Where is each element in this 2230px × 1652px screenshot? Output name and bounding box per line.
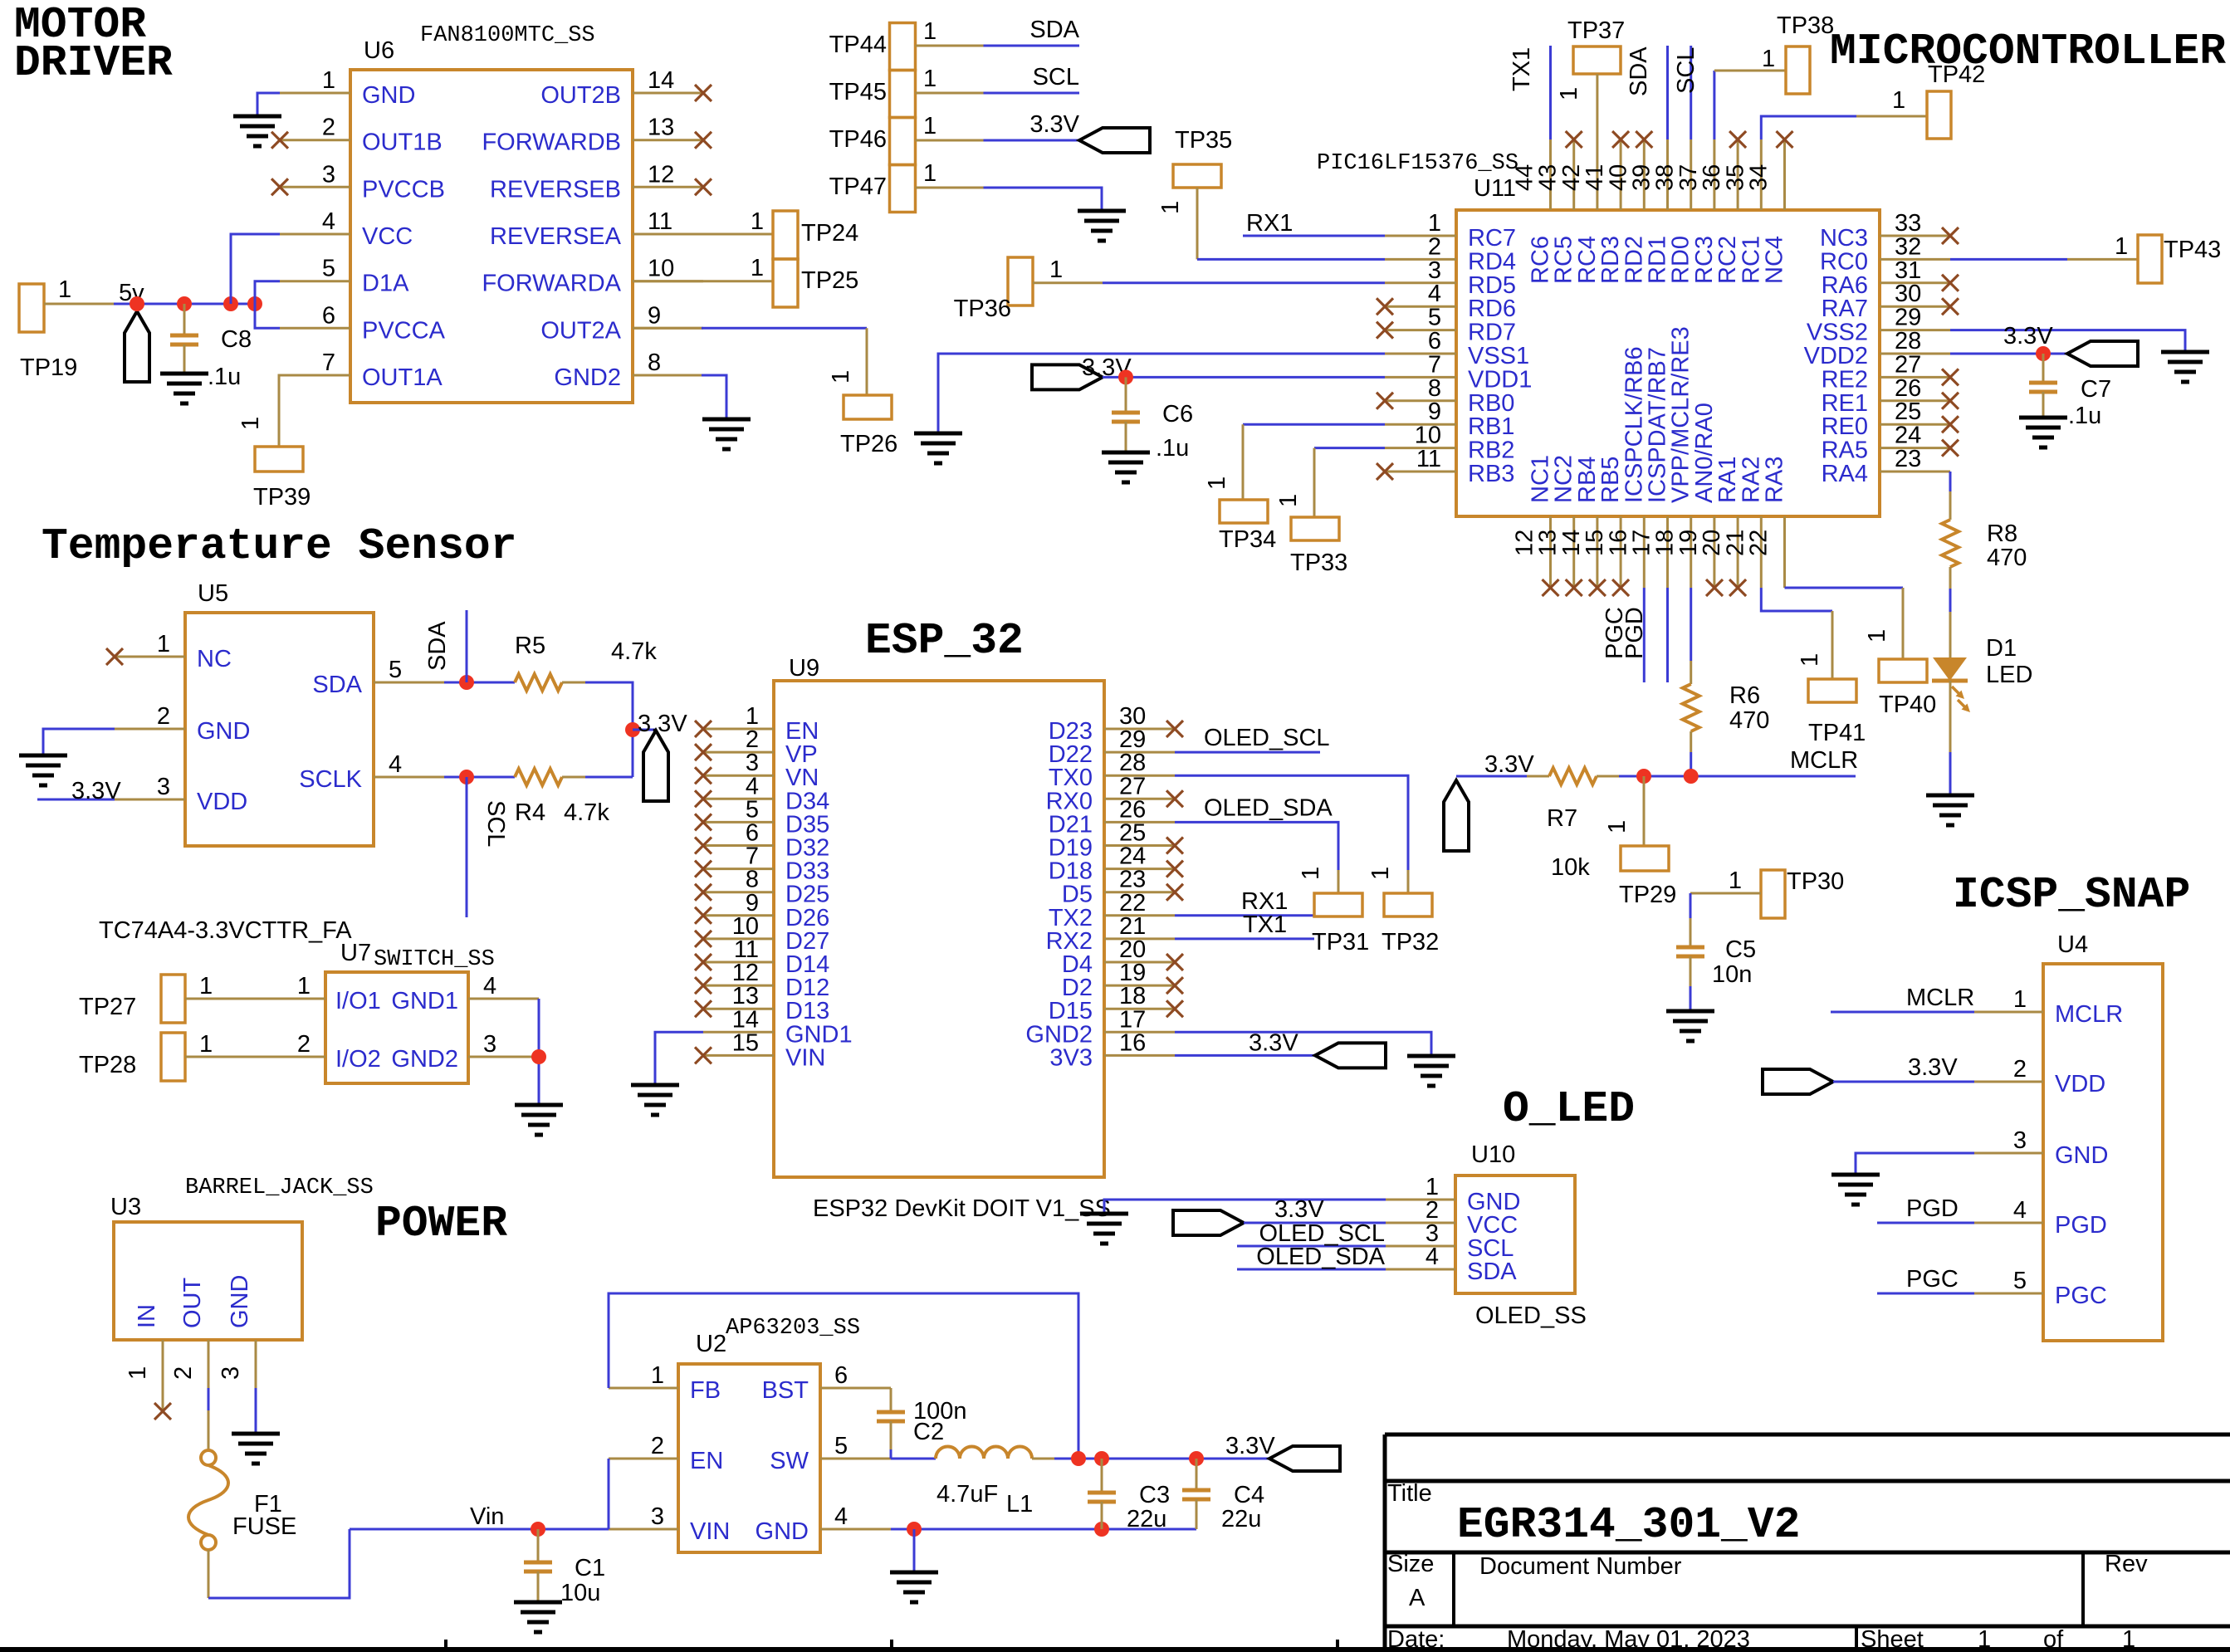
svg-text:D1: D1 bbox=[1986, 635, 2017, 662]
junction Vin bbox=[531, 1522, 545, 1537]
svg-text:33: 33 bbox=[1895, 210, 1921, 237]
U7 pin 2 I/O2 bbox=[255, 1031, 381, 1073]
ground at U10 bbox=[1080, 1214, 1128, 1244]
svg-text:1: 1 bbox=[58, 276, 71, 303]
svg-text:ICSPCLK/RB6: ICSPCLK/RB6 bbox=[1621, 346, 1647, 503]
U9 pin 24 D18 bbox=[1049, 843, 1175, 885]
svg-text:AN0/RA0: AN0/RA0 bbox=[1691, 403, 1718, 503]
svg-text:RE1: RE1 bbox=[1822, 390, 1868, 417]
wire D1 to ground bbox=[1949, 681, 1952, 795]
wire fuse to Vin bbox=[208, 1529, 350, 1598]
svg-text:15: 15 bbox=[732, 1029, 759, 1056]
testpoint TP38 bbox=[1777, 12, 1834, 94]
wire U11 pin6 VSS1 to ground bbox=[938, 354, 1385, 433]
section title MICROCONTROLLER bbox=[1830, 27, 2226, 76]
svg-text:3: 3 bbox=[322, 161, 335, 188]
ground at U6 pin8 bbox=[702, 419, 751, 449]
U11 pin 43 RC5 bbox=[1535, 139, 1577, 284]
wire net PGC to U4 pin5 bbox=[1877, 1266, 1974, 1293]
no-connect U11 pin36 bbox=[1729, 131, 1746, 148]
svg-text:GND: GND bbox=[362, 82, 415, 109]
wire U11 pin37 to TP38 bbox=[1714, 46, 1786, 139]
svg-text:R8: R8 bbox=[1987, 521, 2017, 547]
U11 pin 19 AN0/RA0 bbox=[1675, 403, 1718, 588]
U9 pin 14 GND1 bbox=[703, 1006, 853, 1048]
U11 pin 20 RA1 bbox=[1699, 457, 1741, 588]
wire U6 pin9 OUT2A to TP26 bbox=[633, 328, 867, 395]
svg-text:1: 1 bbox=[1978, 1626, 1991, 1652]
svg-text:3V3: 3V3 bbox=[1049, 1044, 1093, 1071]
svg-text:REVERSEA: REVERSEA bbox=[490, 223, 622, 250]
no-connect U9 pin 4 bbox=[695, 790, 712, 807]
svg-text:30: 30 bbox=[1895, 281, 1921, 307]
no-connect U6 pin 13 bbox=[695, 132, 712, 149]
U5 pin 3 VDD bbox=[115, 774, 247, 815]
wire U9 GND2 to ground bbox=[1175, 1032, 1431, 1056]
no-connect U9 pin 11 bbox=[695, 954, 712, 970]
U11 pin 23 RA4 bbox=[1822, 446, 1950, 487]
junction dots on 5v rail bbox=[130, 296, 262, 311]
testpoint TP31 bbox=[1298, 867, 1369, 956]
svg-text:40: 40 bbox=[1605, 164, 1631, 191]
svg-text:TP35: TP35 bbox=[1175, 127, 1232, 154]
U9 pin 13 D13 bbox=[703, 983, 829, 1024]
svg-text:7: 7 bbox=[322, 349, 335, 376]
power flag 3.3V (R4/R5) bbox=[633, 711, 687, 801]
no-connect U9 pin 9 bbox=[695, 907, 712, 924]
power flag 3.3V (VDD2) bbox=[2067, 341, 2138, 366]
wire net SDA vertical bbox=[424, 610, 467, 682]
svg-text:SDA: SDA bbox=[1467, 1259, 1517, 1285]
svg-text:TP39: TP39 bbox=[253, 484, 311, 511]
svg-text:5: 5 bbox=[834, 1433, 848, 1459]
ground at VSS1 bbox=[914, 433, 962, 463]
U2 pin 3 VIN bbox=[609, 1503, 730, 1545]
svg-text:C8: C8 bbox=[221, 326, 252, 353]
svg-text:RA7: RA7 bbox=[1822, 296, 1868, 322]
U11 pin 29 VSS2 bbox=[1807, 305, 1950, 346]
IC U5 TC74A4 body bbox=[99, 580, 374, 944]
wire 3.3V to R7 bbox=[1456, 775, 1549, 778]
svg-text:1: 1 bbox=[1275, 494, 1302, 507]
power flag 5v bbox=[119, 280, 149, 382]
svg-text:RB1: RB1 bbox=[1468, 413, 1514, 440]
wire TP36 to U11 pin3 bbox=[1103, 281, 1385, 284]
U9 pin 17 GND2 bbox=[1025, 1006, 1175, 1048]
U11 pin 14 RB4 bbox=[1558, 457, 1601, 588]
svg-text:L1: L1 bbox=[1006, 1491, 1033, 1518]
svg-text:R6: R6 bbox=[1729, 682, 1760, 709]
resistor R7 10k bbox=[1547, 768, 1597, 881]
U5 pin 5 SDA bbox=[312, 657, 444, 698]
svg-text:41: 41 bbox=[1582, 164, 1608, 191]
svg-text:19: 19 bbox=[1675, 530, 1702, 556]
svg-text:31: 31 bbox=[1895, 257, 1921, 284]
svg-text:.1u: .1u bbox=[208, 364, 241, 390]
wire D1A/PVCCA riser to U6 pins5,6 bbox=[255, 281, 280, 329]
wire net OLED_SCL to U10 pin3 bbox=[1237, 1220, 1386, 1247]
svg-text:3: 3 bbox=[1428, 257, 1441, 284]
svg-text:RD6: RD6 bbox=[1468, 296, 1516, 322]
power flag 3.3V (VDD1) bbox=[1032, 354, 1132, 389]
U9 pin 7 D33 bbox=[703, 843, 829, 885]
svg-text:TP24: TP24 bbox=[801, 220, 858, 247]
U11 pin 16 ICSPCLK/RB6 bbox=[1605, 346, 1647, 588]
svg-text:C4: C4 bbox=[1234, 1482, 1264, 1508]
no-connect U11 pin41 bbox=[1612, 131, 1629, 148]
svg-text:R5: R5 bbox=[515, 633, 545, 659]
label ESP32 DevKit DOIT V1_SS bbox=[813, 1195, 1111, 1222]
testpoint TP36 bbox=[954, 257, 1103, 322]
svg-text:3.3V: 3.3V bbox=[638, 711, 687, 737]
power flag 3.3V (U9 3V3) bbox=[1315, 1043, 1386, 1068]
wire net OLED_SCL on U9 pin29 bbox=[1175, 725, 1330, 752]
svg-text:1: 1 bbox=[651, 1362, 664, 1389]
svg-text:FORWARDB: FORWARDB bbox=[482, 130, 621, 156]
U11 pin 4 RD6 bbox=[1385, 281, 1516, 322]
testpoint TP45 bbox=[829, 66, 984, 118]
svg-text:SWITCH_SS: SWITCH_SS bbox=[374, 947, 495, 972]
ground at D1 bbox=[1926, 795, 1974, 825]
testpoint TP26 bbox=[828, 370, 897, 457]
U11 pin 18 VPP/MCLR/RE3 bbox=[1652, 326, 1695, 588]
svg-text:4.7uF: 4.7uF bbox=[937, 1481, 998, 1508]
no-connect U9 pin 1 bbox=[695, 721, 712, 737]
svg-text:NC2: NC2 bbox=[1551, 455, 1577, 503]
capacitor C6 .1u bbox=[1112, 377, 1193, 462]
junction dots MCLR node bbox=[1636, 769, 1699, 784]
U6 pin 6 PVCCA bbox=[280, 302, 446, 344]
U11 pin 11 RB3 bbox=[1385, 446, 1514, 487]
wire U11 pin35 to TP42 bbox=[1761, 87, 1927, 139]
power flag 3.3V (output) bbox=[1269, 1446, 1340, 1471]
svg-text:14: 14 bbox=[648, 67, 674, 94]
svg-text:20: 20 bbox=[1699, 530, 1725, 556]
wire U3 pin3 to ground bbox=[255, 1388, 257, 1434]
resistor R6 470 bbox=[1683, 682, 1770, 734]
svg-text:3: 3 bbox=[651, 1503, 664, 1530]
svg-text:LED: LED bbox=[1986, 662, 2032, 688]
svg-text:15: 15 bbox=[1582, 530, 1608, 556]
svg-text:U4: U4 bbox=[2057, 931, 2088, 958]
svg-text:TP40: TP40 bbox=[1879, 692, 1936, 718]
junction at C7 bbox=[2036, 346, 2051, 361]
svg-text:MICROCONTROLLER: MICROCONTROLLER bbox=[1830, 27, 2226, 76]
no-connect U9 pin 12 bbox=[695, 977, 712, 994]
wire 3.3V to U4 pin2 bbox=[1833, 1081, 1974, 1083]
wire U7 grounds bbox=[538, 999, 540, 1105]
no-connect U9 pin25 bbox=[1166, 838, 1183, 854]
svg-text:4: 4 bbox=[834, 1503, 848, 1530]
svg-text:4: 4 bbox=[1428, 281, 1441, 307]
svg-text:10n: 10n bbox=[1712, 961, 1752, 988]
capacitor C2 100n bbox=[877, 1388, 967, 1459]
svg-text:7: 7 bbox=[1428, 351, 1441, 378]
svg-text:VPP/MCLR/RE3: VPP/MCLR/RE3 bbox=[1668, 326, 1695, 503]
svg-text:PGD: PGD bbox=[1621, 607, 1648, 659]
section title Temperature Sensor bbox=[42, 521, 517, 571]
testpoint TP24 bbox=[633, 208, 858, 259]
svg-text:RB5: RB5 bbox=[1597, 457, 1624, 503]
IC U7 SWITCH_SS body bbox=[325, 940, 495, 1083]
svg-text:GND2: GND2 bbox=[554, 364, 621, 391]
svg-text:OLED_SDA: OLED_SDA bbox=[1256, 1244, 1385, 1270]
testpoint TP28 bbox=[79, 1031, 255, 1081]
testpoint TP29 bbox=[1604, 820, 1676, 908]
ground at C1 bbox=[514, 1602, 562, 1632]
svg-text:C6: C6 bbox=[1162, 401, 1193, 428]
wire TP30 to C5 bbox=[1690, 893, 1692, 947]
svg-text:1: 1 bbox=[1049, 257, 1063, 283]
svg-text:PGD: PGD bbox=[2055, 1212, 2107, 1239]
wire MCLR to TP29 bbox=[1643, 776, 1646, 846]
U11 pin 33 NC3 bbox=[1820, 210, 1950, 252]
svg-text:EN: EN bbox=[690, 1448, 723, 1474]
wire U11 pin10 to TP33 bbox=[1314, 448, 1385, 517]
svg-text:32: 32 bbox=[1895, 233, 1921, 260]
svg-text:C2: C2 bbox=[913, 1419, 944, 1445]
svg-text:8: 8 bbox=[648, 349, 661, 376]
wire VCC riser to U6 pin4 bbox=[231, 234, 280, 304]
svg-text:1: 1 bbox=[2115, 233, 2128, 260]
no-connect U9 pin 7 bbox=[695, 861, 712, 877]
svg-text:FORWARDA: FORWARDA bbox=[482, 271, 621, 297]
svg-text:EGR314_301_V2: EGR314_301_V2 bbox=[1457, 1500, 1800, 1550]
svg-text:FAN8100MTC_SS: FAN8100MTC_SS bbox=[420, 23, 595, 48]
U11 pin 9 RB1 bbox=[1385, 398, 1514, 440]
no-connect U9 pin18 bbox=[1166, 1000, 1183, 1017]
U4 pin 5 PGC bbox=[1974, 1268, 2107, 1309]
ground at C8 bbox=[160, 374, 208, 403]
wire net SDA bbox=[984, 17, 1080, 46]
svg-text:1: 1 bbox=[1298, 867, 1324, 880]
wire U9 pin28 TX0 to TP32 bbox=[1175, 775, 1408, 893]
svg-text:13: 13 bbox=[648, 115, 674, 141]
U11 pin 37 RC3 bbox=[1675, 139, 1718, 284]
svg-text:28: 28 bbox=[1895, 328, 1921, 354]
svg-text:10: 10 bbox=[1415, 423, 1441, 449]
no-connect U9 pin23 bbox=[1166, 884, 1183, 901]
svg-text:5: 5 bbox=[2013, 1268, 2027, 1294]
wire U4 pin3 GND to ground bbox=[1856, 1153, 1974, 1175]
U9 pin 5 D35 bbox=[703, 796, 829, 838]
U3 pin 1 IN bbox=[125, 1304, 163, 1411]
svg-text:ICSP_SNAP: ICSP_SNAP bbox=[1953, 870, 2190, 920]
wire U3 pin2 to fuse bbox=[208, 1388, 210, 1450]
svg-text:PGC: PGC bbox=[1906, 1266, 1959, 1293]
U6 pin 4 VCC bbox=[280, 208, 413, 250]
wire U11 pin32 RC0 to TP43 bbox=[1950, 233, 2138, 260]
svg-text:U9: U9 bbox=[789, 655, 819, 682]
svg-text:TP41: TP41 bbox=[1808, 720, 1866, 746]
svg-text:RD0: RD0 bbox=[1668, 236, 1695, 284]
wire R8 to D1 bbox=[1949, 567, 1952, 657]
svg-text:5: 5 bbox=[1428, 305, 1441, 331]
no-connect U11 pin33 bbox=[1942, 227, 1959, 244]
svg-text:1: 1 bbox=[157, 631, 170, 657]
title text EGR314_301_V2 bbox=[1457, 1500, 1800, 1550]
no-connect U9 pin19 bbox=[1166, 977, 1183, 994]
svg-text:1: 1 bbox=[297, 973, 311, 1000]
svg-text:RE2: RE2 bbox=[1822, 366, 1868, 393]
ground at U2 bbox=[890, 1572, 938, 1602]
wire U11 pin23 RA4 to R8 bbox=[1949, 472, 1952, 520]
svg-text:AP63203_SS: AP63203_SS bbox=[726, 1316, 860, 1341]
svg-text:RC1: RC1 bbox=[1738, 236, 1764, 284]
svg-text:2: 2 bbox=[170, 1366, 197, 1380]
svg-text:2: 2 bbox=[1428, 233, 1441, 260]
svg-text:4: 4 bbox=[389, 751, 402, 778]
IC U3 BARREL_JACK_SS body bbox=[110, 1175, 374, 1340]
U9 pin 30 D23 bbox=[1049, 703, 1175, 745]
section title MOTOR DRIVER bbox=[14, 0, 173, 88]
U11 pin 25 RE0 bbox=[1822, 398, 1950, 440]
svg-text:5: 5 bbox=[322, 256, 335, 282]
capacitor C8 .1u bbox=[170, 304, 252, 390]
svg-text:RC0: RC0 bbox=[1820, 248, 1868, 275]
wire net SDA on U11 pin39 bbox=[1626, 46, 1668, 139]
svg-text:29: 29 bbox=[1895, 305, 1921, 331]
wire R5 to 3.3V node bbox=[562, 682, 633, 777]
svg-text:PIC16LF15376_SS: PIC16LF15376_SS bbox=[1317, 151, 1518, 176]
svg-text:36: 36 bbox=[1699, 164, 1725, 191]
wire to ground U2 bbox=[913, 1529, 916, 1572]
svg-text:22: 22 bbox=[1746, 530, 1773, 556]
capacitor C5 10n bbox=[1676, 936, 1756, 1011]
IC U9 ESP32 body bbox=[774, 655, 1104, 1177]
U11 pin 35 RC1 bbox=[1722, 139, 1764, 284]
svg-text:1: 1 bbox=[1604, 820, 1631, 833]
U9 pin 11 D14 bbox=[703, 936, 829, 978]
resistor R4 4.7k bbox=[515, 769, 609, 826]
title block Title label bbox=[1387, 1480, 1432, 1507]
U9 pin 2 VP bbox=[703, 726, 818, 768]
testpoint TP40 bbox=[1864, 629, 1936, 718]
svg-text:1: 1 bbox=[1204, 477, 1230, 490]
svg-text:RC3: RC3 bbox=[1691, 236, 1718, 284]
svg-text:VDD1: VDD1 bbox=[1468, 366, 1532, 393]
U9 pin 22 TX2 bbox=[1049, 890, 1175, 931]
testpoint TP37 bbox=[1556, 17, 1625, 139]
svg-text:D1A: D1A bbox=[362, 271, 409, 297]
resistor R5 4.7k bbox=[515, 633, 657, 691]
U9 pin 15 VIN bbox=[703, 1029, 825, 1071]
svg-text:16: 16 bbox=[1119, 1029, 1146, 1056]
svg-text:RA5: RA5 bbox=[1822, 437, 1868, 464]
svg-text:2: 2 bbox=[651, 1433, 664, 1459]
IC U11 PIC16LF15376_SS body bbox=[1317, 151, 1880, 516]
svg-text:4: 4 bbox=[322, 208, 335, 235]
IC U10 OLED_SS body bbox=[1455, 1141, 1587, 1329]
svg-text:RX1: RX1 bbox=[1246, 210, 1293, 237]
svg-text:VDD2: VDD2 bbox=[1804, 343, 1868, 369]
svg-text:1: 1 bbox=[1762, 46, 1775, 72]
svg-text:11: 11 bbox=[648, 208, 672, 235]
wire U2 EN to VIN bbox=[608, 1459, 610, 1529]
wire U11 pin9 to TP34 bbox=[1243, 424, 1385, 500]
wire 3.3V to U10 pin2 bbox=[1244, 1222, 1386, 1224]
svg-text:SDA: SDA bbox=[1626, 46, 1652, 96]
power flag 3.3V (MCLR pullup) bbox=[1444, 751, 1534, 851]
testpoint TP32 bbox=[1367, 867, 1439, 956]
U5 pin 1 NC bbox=[115, 631, 232, 672]
svg-text:RB4: RB4 bbox=[1574, 457, 1601, 503]
svg-text:TP34: TP34 bbox=[1219, 526, 1276, 553]
svg-text:TP42: TP42 bbox=[1928, 61, 1985, 88]
junction 3.3V node bbox=[625, 722, 640, 737]
sheet bottom border bbox=[0, 1640, 2230, 1652]
svg-text:4.7k: 4.7k bbox=[611, 638, 657, 665]
svg-text:3.3V: 3.3V bbox=[1274, 1196, 1324, 1223]
svg-text:1: 1 bbox=[199, 973, 213, 1000]
svg-text:FB: FB bbox=[690, 1377, 721, 1404]
svg-text:RC2: RC2 bbox=[1714, 236, 1741, 284]
svg-text:RB3: RB3 bbox=[1468, 461, 1514, 487]
svg-text:22u: 22u bbox=[1221, 1506, 1261, 1532]
no-connect U9 pin30 bbox=[1166, 721, 1183, 737]
svg-text:1: 1 bbox=[923, 66, 937, 92]
ground at U7 bbox=[515, 1105, 563, 1135]
U6 pin 10 FORWARDA bbox=[482, 256, 703, 297]
ground at U3 bbox=[232, 1434, 280, 1464]
U11 pin 28 VDD2 bbox=[1804, 328, 1950, 369]
U9 pin 8 D25 bbox=[703, 867, 829, 908]
junction SCL bbox=[459, 770, 474, 784]
title block frame bbox=[1385, 1435, 2230, 1652]
svg-text:35: 35 bbox=[1722, 164, 1748, 191]
svg-text:TP47: TP47 bbox=[829, 174, 887, 200]
svg-text:6: 6 bbox=[834, 1362, 848, 1389]
no-connect U11 pin43 bbox=[1566, 131, 1582, 148]
U9 pin 12 D12 bbox=[703, 960, 829, 1001]
svg-text:U11: U11 bbox=[1474, 175, 1516, 202]
U9 pin 28 TX0 bbox=[1049, 750, 1175, 791]
svg-text:R4: R4 bbox=[515, 799, 545, 826]
svg-text:TP32: TP32 bbox=[1382, 929, 1439, 956]
U11 pin 32 RC0 bbox=[1820, 233, 1950, 275]
capacitor C3 22u bbox=[1088, 1459, 1170, 1532]
wire U5 SDA node bbox=[444, 682, 515, 684]
U11 pin 31 RA6 bbox=[1822, 257, 1950, 299]
U11 pin 22 RA3 bbox=[1746, 457, 1788, 588]
inductor L1 4.7uF bbox=[936, 1447, 1033, 1518]
svg-text:NC: NC bbox=[197, 646, 232, 672]
svg-text:27: 27 bbox=[1895, 351, 1921, 378]
no-connect U9 pin 5 bbox=[695, 814, 712, 830]
wire L1 to 3.3V bbox=[1032, 1433, 1275, 1459]
svg-text:1: 1 bbox=[2013, 986, 2027, 1013]
wire 3.3V to U11 pin7 VDD1 bbox=[1103, 376, 1385, 379]
no-connect U11 pin13 bbox=[1566, 579, 1582, 596]
svg-text:8: 8 bbox=[1428, 375, 1441, 402]
svg-text:NC1: NC1 bbox=[1528, 455, 1554, 503]
U10 pin 2 VCC bbox=[1386, 1197, 1518, 1239]
U6 pin 8 GND2 bbox=[554, 349, 703, 391]
wire net MCLR to U4 pin1 bbox=[1831, 985, 1974, 1012]
svg-text:SDA: SDA bbox=[1029, 17, 1079, 43]
svg-text:3.3V: 3.3V bbox=[1484, 751, 1534, 778]
wire net TX1 on U11 pin44 bbox=[1509, 46, 1551, 139]
svg-text:.1u: .1u bbox=[2068, 403, 2101, 429]
U11 pin 27 RE2 bbox=[1822, 351, 1950, 393]
testpoint TP41 bbox=[1797, 653, 1866, 746]
svg-text:.1u: .1u bbox=[1156, 435, 1189, 462]
svg-text:U5: U5 bbox=[198, 580, 228, 607]
svg-text:38: 38 bbox=[1652, 164, 1679, 191]
svg-text:1: 1 bbox=[828, 370, 854, 384]
svg-text:Date:: Date: bbox=[1387, 1626, 1445, 1652]
U9 pin 1 EN bbox=[703, 703, 819, 745]
